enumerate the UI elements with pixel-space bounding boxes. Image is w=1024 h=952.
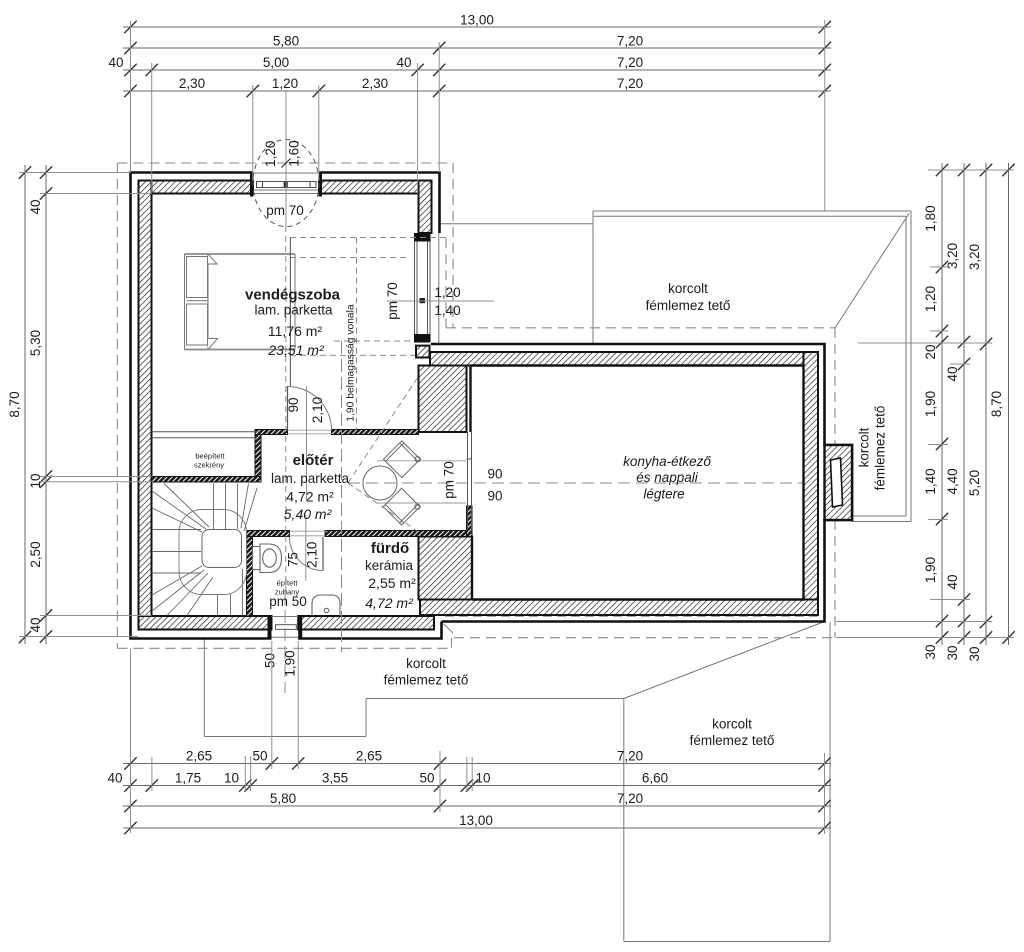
svg-text:30: 30 [923,644,938,659]
dimension labels left [7,199,43,632]
outer contour thin across east window [438,233,440,343]
svg-text:30: 30 [967,646,982,661]
wall mass corner guest/kitchen junction [419,366,467,433]
svg-text:pm 70: pm 70 [442,461,457,499]
svg-text:1,90: 1,90 [923,557,938,583]
svg-text:3,55: 3,55 [322,771,348,786]
svg-text:7,20: 7,20 [617,76,643,91]
svg-text:1,90: 1,90 [923,391,938,417]
svg-text:2,10: 2,10 [305,542,320,568]
svg-text:5,40 m²: 5,40 m² [284,506,333,522]
wall band kitchen north [430,352,817,366]
svg-text:4,72 m²: 4,72 m² [286,489,334,505]
balustrade thin lines kitchen west opening [467,432,473,531]
dashed funnel upper [348,379,417,484]
svg-text:7,20: 7,20 [617,791,643,806]
wall band south left of small window [139,616,272,630]
svg-text:90: 90 [487,489,502,504]
svg-text:2,65: 2,65 [186,749,212,764]
svg-text:fémlemez tető: fémlemez tető [646,298,731,313]
partition closet/stair [152,477,262,483]
roof outline upper-right rectangle (korcolt femlemez teto) [593,211,911,522]
dimension lines bottom [123,757,831,834]
svg-text:1,60: 1,60 [287,140,302,166]
partition lining kitchen west [467,506,473,537]
door bath threshold lines [290,531,326,536]
wall band kitchen south [420,600,818,616]
svg-text:2,10: 2,10 [310,397,325,423]
dashed line y257 [290,257,410,259]
wall block under east window [416,346,430,358]
partition stair/wc vertical [247,531,253,617]
partition guest/eloter right piece [332,430,419,435]
svg-text:40: 40 [28,199,43,214]
svg-text:30: 30 [945,645,960,660]
svg-text:50: 50 [263,653,278,668]
wall band west full height [139,181,152,630]
dimension lines left [19,165,52,644]
dashed eave connector at step [451,638,453,649]
dashed line y341 [334,340,412,342]
dashed eave kitchen top edge [446,327,835,329]
window south small (50) frame [272,617,299,638]
svg-text:1,80: 1,80 [923,205,938,231]
svg-text:8,70: 8,70 [989,391,1004,417]
door guest threshold lines [288,430,332,434]
armchair lower [383,488,421,526]
wall band east upper (guest room) [419,181,432,234]
svg-text:4,40: 4,40 [945,468,960,494]
svg-text:1,40: 1,40 [923,468,938,494]
centerline bathroom x341 [341,341,343,652]
door guest room leaf [287,386,289,430]
dashed 1.90 height line top [290,237,446,239]
svg-text:90: 90 [487,467,502,482]
svg-text:5,80: 5,80 [270,791,296,806]
svg-text:korcolt: korcolt [668,281,708,296]
window south jamb left [268,616,272,639]
svg-text:korcolt: korcolt [857,427,872,467]
svg-text:épített: épített [277,579,299,588]
svg-text:2,30: 2,30 [179,76,205,91]
svg-text:légtere: légtere [643,487,684,502]
roof step outline bottom-left [204,639,624,737]
svg-text:fémlemez tető: fémlemez tető [690,733,775,748]
door bathroom swing arc [289,537,323,571]
svg-text:5,00: 5,00 [263,55,289,70]
window north jamb right [319,173,323,197]
svg-text:lam. parketta: lam. parketta [254,303,333,318]
svg-text:40: 40 [108,55,123,70]
chair guide lines [377,461,466,503]
door bathroom leaf [322,537,324,571]
stairs winder treads [152,484,257,616]
svg-text:13,00: 13,00 [459,813,493,828]
round table [363,466,397,500]
dashed ellipse window callout [253,140,319,227]
dashed window centerline x287 [285,226,287,592]
svg-text:1,90 belmagasság vonala: 1,90 belmagasság vonala [346,304,357,422]
window north (1.20) opening lines [254,173,319,194]
window east jamb bottom [414,334,431,343]
window east jamb top [414,233,431,242]
dashed line y616 under kitchen wall [445,615,824,617]
dashed eave kitchen right edge [834,328,836,638]
svg-text:40: 40 [28,617,43,632]
dashed funnel lower [348,483,417,531]
svg-text:lam. parketta: lam. parketta [271,471,350,486]
dimension labels top [108,13,643,92]
svg-text:pm 70: pm 70 [266,203,304,218]
dashed eave main roof bottom edge [117,647,451,649]
window south jamb right [298,616,302,639]
dashed 1.90 vertical at x356 [356,238,358,430]
leader guest door dims [306,386,308,500]
dashed eave main roof left edge [116,163,118,648]
svg-text:1,90: 1,90 [283,650,298,676]
svg-text:1,20: 1,20 [263,141,278,167]
svg-text:7,20: 7,20 [617,749,643,764]
toilet [253,544,282,573]
svg-text:6,60: 6,60 [642,771,668,786]
wall mass bathroom east [419,537,473,600]
tick window centerline [282,159,291,168]
bed [185,254,296,350]
leader bath door dims [305,515,307,581]
svg-text:5,30: 5,30 [28,330,43,356]
svg-text:50: 50 [252,749,267,764]
svg-text:5,20: 5,20 [967,470,982,496]
svg-text:konyha-étkező: konyha-étkező [623,454,711,469]
svg-text:40: 40 [107,771,122,786]
chimney block [825,445,853,520]
partition eloter/bath left piece [247,531,290,537]
dashed eave main roof top edge [117,162,453,164]
svg-text:13,00: 13,00 [460,13,494,28]
svg-text:1,20: 1,20 [923,286,938,312]
leader window east dims [387,300,494,302]
svg-text:8,70: 8,70 [7,391,22,417]
window north jamb left [250,173,254,197]
svg-text:vendégszoba: vendégszoba [245,287,341,304]
roof plane rectangle bottom-right [624,622,830,942]
svg-text:40: 40 [945,574,960,589]
svg-text:10: 10 [224,771,239,786]
svg-text:korcolt: korcolt [406,656,446,671]
svg-text:50: 50 [419,771,434,786]
svg-text:2,50: 2,50 [28,541,43,567]
roof small hip at step [444,624,454,634]
svg-text:fémlemez tető: fémlemez tető [873,406,888,491]
dimension labels bottom [107,749,668,829]
window east (guest) frame [415,242,431,335]
partition closet right wall [255,435,261,477]
svg-text:4,72 m²: 4,72 m² [365,595,414,611]
svg-text:2,30: 2,30 [362,76,388,91]
svg-text:pm 50: pm 50 [269,594,307,609]
svg-text:7,20: 7,20 [617,55,643,70]
outer contour kitchen with chimney [431,344,852,622]
svg-text:3,20: 3,20 [945,243,960,269]
roof hip diagonal upper-right [835,214,909,329]
solid line x290 [289,238,291,387]
wall band north (guest room) right of window [319,181,432,194]
wall band north (guest room) left of window [139,181,254,194]
svg-text:40: 40 [396,55,411,70]
chimney flue [831,458,843,507]
svg-text:1,75: 1,75 [175,771,201,786]
svg-text:kerámia: kerámia [365,558,414,573]
svg-text:1,20: 1,20 [272,76,298,91]
svg-text:fémlemez tető: fémlemez tető [384,673,469,688]
dashed eave kitchen left edge [445,238,447,328]
svg-text:fürdő: fürdő [371,540,409,557]
wall band south right of small window [298,616,434,630]
svg-text:90: 90 [286,397,301,412]
partition eloter/bath right piece [325,531,467,537]
armchair upper [383,440,421,478]
wall band kitchen east [804,352,819,609]
svg-text:40: 40 [945,366,960,381]
kitchen interior face lines [471,366,804,600]
svg-text:7,20: 7,20 [617,34,643,49]
dimension labels right [923,205,1004,661]
closet front lines [152,432,258,438]
svg-text:10: 10 [28,473,43,488]
centerline kitchen y483 [348,482,803,484]
svg-text:3,20: 3,20 [967,244,982,270]
roof hip diagonal bottom-right [624,622,825,699]
centerline small window x285 [284,592,286,693]
svg-text:75: 75 [286,552,301,567]
outer contour main block [131,173,442,639]
svg-text:1,20: 1,20 [434,285,460,300]
svg-text:5,80: 5,80 [273,34,299,49]
roof eave line y224 [441,223,593,225]
svg-text:szekrény: szekrény [194,461,224,470]
partition guest/eloter left piece [255,430,288,435]
svg-text:és nappali: és nappali [636,470,699,485]
door guest room swing arc [288,386,332,430]
dimension lines right [936,163,1015,645]
svg-text:korcolt: korcolt [712,717,752,732]
svg-text:2,65: 2,65 [356,749,382,764]
svg-text:előtér: előtér [293,452,334,469]
svg-text:23,51 m²: 23,51 m² [267,342,325,358]
svg-text:10: 10 [475,771,490,786]
stair eye [202,530,242,568]
svg-text:2,55 m²: 2,55 m² [368,575,416,591]
svg-text:11,76 m²: 11,76 m² [268,323,323,339]
svg-text:beépített: beépített [195,452,225,461]
dashed eave kitchen bottom edge [454,637,835,639]
dashed eave main roof right edge [452,163,454,328]
svg-text:20: 20 [923,344,938,359]
washbasin [312,595,340,616]
dimension lines top [123,21,831,97]
dashed 1.90 height line bottom [290,354,415,356]
svg-text:pm 70: pm 70 [385,282,400,320]
svg-text:1,40: 1,40 [434,303,460,318]
stair walk line [179,510,247,595]
